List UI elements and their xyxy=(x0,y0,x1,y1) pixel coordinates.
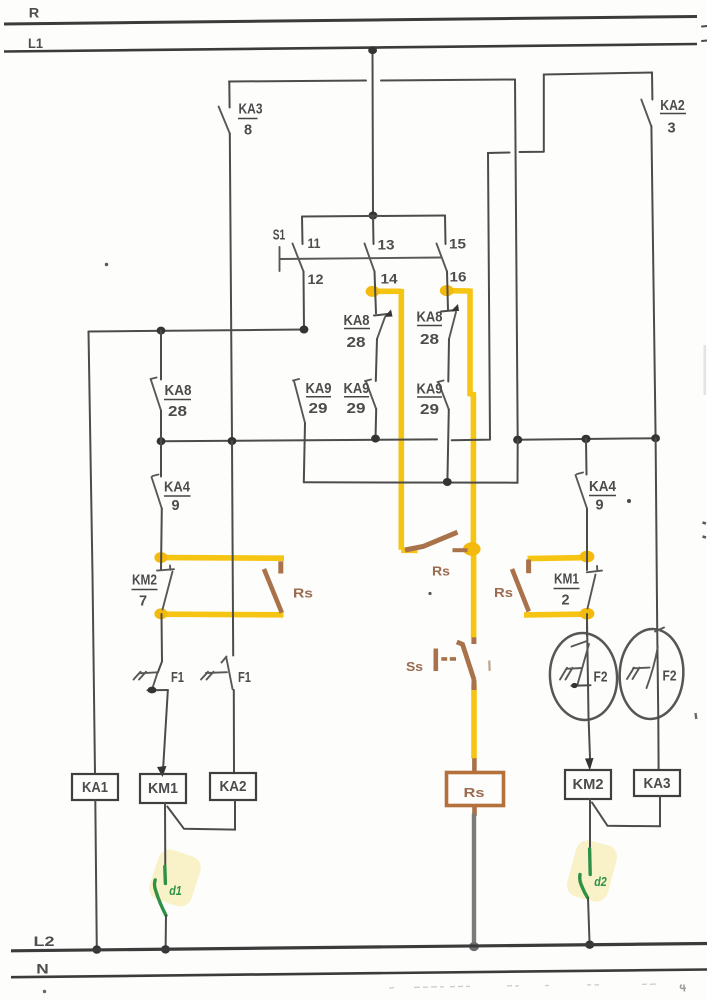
contact S1 pole 13-14 xyxy=(372,216,375,245)
wire KA2 coil branch xyxy=(232,441,233,656)
svg-text:29: 29 xyxy=(309,401,328,417)
wire F1 to KM1 coil xyxy=(163,691,168,767)
svg-text:Rs: Rs xyxy=(432,564,450,579)
faint caption specks bottom xyxy=(389,984,656,988)
yellow jumper at KM2/7 bottom xyxy=(162,611,284,617)
wire KA2 coil elbow to KM1 wire xyxy=(167,800,235,830)
speck near S1 xyxy=(105,263,108,266)
svg-text:Rs: Rs xyxy=(293,586,313,601)
wire F2 to KA3 coil xyxy=(657,719,659,770)
switch S1 actuator xyxy=(280,247,442,271)
yellow jumper at KM2/7 top xyxy=(162,555,284,561)
brown switch Rs mid (open) xyxy=(405,532,458,550)
wire KA3 feeder down to rail xyxy=(515,80,518,440)
green open blade d1 xyxy=(154,880,166,916)
relay contact KA9/29 right xyxy=(438,381,449,410)
relay contact KA4/9 right xyxy=(576,473,588,509)
svg-text:KM1: KM1 xyxy=(148,781,178,797)
wire KA3 top stub xyxy=(228,82,230,108)
bus L2 xyxy=(11,944,707,951)
bus R xyxy=(4,17,697,25)
svg-text:9: 9 xyxy=(595,498,603,514)
node left feeder column A xyxy=(300,326,309,334)
contact S1 pole 11-12 xyxy=(301,217,304,245)
wire rail1 to KA4 right xyxy=(585,439,588,475)
svg-text:2: 2 xyxy=(561,593,569,609)
svg-text:KA9: KA9 xyxy=(306,381,332,397)
wire KA3 coil elbow to KM2 wire xyxy=(592,796,660,826)
relay coil KA3 xyxy=(634,770,680,796)
wire KA2 down to rail xyxy=(651,126,655,438)
thermal contact F1 left xyxy=(134,672,159,680)
wire KA8 to KA9 mid xyxy=(376,339,377,381)
wire KA2 step jog xyxy=(452,75,544,441)
svg-text:Ss: Ss xyxy=(406,659,423,674)
svg-text:KA3: KA3 xyxy=(239,102,263,118)
svg-text:29: 29 xyxy=(347,401,366,417)
svg-text:F1: F1 xyxy=(238,670,251,686)
relay coil KA1 xyxy=(72,774,118,800)
svg-text:KA9: KA9 xyxy=(344,381,370,397)
svg-text:28: 28 xyxy=(420,332,439,348)
yellow wire from contact 16 xyxy=(441,289,474,638)
svg-text:8: 8 xyxy=(244,123,252,139)
svg-text:F2: F2 xyxy=(663,669,677,685)
overload F2 first circle xyxy=(547,631,620,722)
relay contact KA4/9 left xyxy=(152,475,162,509)
relay contact KA9/29 mid xyxy=(365,380,376,410)
wire KA9 mid down to rail1 xyxy=(375,409,378,439)
svg-text:KA8: KA8 xyxy=(165,383,192,399)
contact S1 pole 15-16 xyxy=(444,216,447,245)
svg-text:KM1: KM1 xyxy=(554,572,579,588)
yellow node at contact 16 xyxy=(440,285,454,296)
wire 16 down to KA8 xyxy=(447,272,448,311)
svg-text:F2: F2 xyxy=(594,670,608,686)
relay contact KA8/28 right xyxy=(441,310,457,312)
svg-text:N: N xyxy=(36,961,49,977)
node KM1 on L2 xyxy=(161,945,170,953)
wire F1 to KA2 coil xyxy=(233,690,235,773)
svg-text:3: 3 xyxy=(667,121,675,137)
bus N xyxy=(11,970,707,978)
speck right of KA4/9 xyxy=(627,499,631,503)
wire 12 down to node xyxy=(303,272,306,330)
node rail1 column B xyxy=(371,435,380,443)
relay contact KA8/28 mid xyxy=(374,314,390,316)
wire KM2 contact to F1 xyxy=(158,614,162,672)
svg-text:12: 12 xyxy=(308,271,324,287)
svg-text:KM2: KM2 xyxy=(573,777,604,793)
wire KM2 to d2 xyxy=(589,799,591,850)
brown switch Rs right (open) xyxy=(526,560,531,574)
wire d1 to bus L2 xyxy=(165,916,167,950)
svg-text:KA2: KA2 xyxy=(220,779,247,795)
node rail2 column C xyxy=(443,478,452,486)
svg-text:14: 14 xyxy=(381,271,398,287)
svg-text:KA8: KA8 xyxy=(344,313,370,329)
wire KA8 left branch upper xyxy=(160,331,162,380)
relay contact KA2/3 xyxy=(641,100,651,127)
highlight blob d1 xyxy=(146,846,204,909)
node on L1 xyxy=(368,46,377,54)
thermal contact F1 right xyxy=(201,672,227,680)
relay contact KA9/29 left xyxy=(293,379,305,423)
green overdraw d1 top xyxy=(163,867,167,884)
wire d2 to bus L2 xyxy=(588,898,590,945)
svg-text:KM2: KM2 xyxy=(132,573,157,589)
yellow node KM2/7 bottom xyxy=(154,608,167,619)
bus L1 xyxy=(4,44,697,52)
node rail1 KA2 branch xyxy=(651,434,660,442)
relay contact KA3/8 xyxy=(219,107,230,134)
wire KA1 branch xyxy=(89,332,96,775)
wire F2 to KM2 coil xyxy=(589,716,591,758)
rail1 left segment xyxy=(161,439,437,441)
rail2 lower xyxy=(304,440,518,483)
wire L1 to S1 block xyxy=(372,51,375,216)
edge mark right lower xyxy=(694,713,697,719)
yellow node KM2/7 top xyxy=(154,552,167,563)
svg-text:28: 28 xyxy=(168,404,187,420)
node left feeder KA8 branch xyxy=(157,327,166,335)
edge streak right xyxy=(704,345,707,395)
ink blob at KM1 coil top xyxy=(157,766,167,777)
yellow jumper at KM1/2 top xyxy=(528,555,582,561)
svg-text:L2: L2 xyxy=(34,933,55,949)
wire KA2 feeder xyxy=(544,73,653,100)
squiggle mark bottom right xyxy=(680,985,686,992)
yellow jumper at KM1/2 bottom xyxy=(524,611,581,617)
svg-text:9: 9 xyxy=(171,498,179,514)
node rail1 KA8 branch xyxy=(157,437,166,445)
highlight blob d2 xyxy=(564,838,620,905)
green open blade d2 xyxy=(580,875,588,898)
rail1 right segment xyxy=(518,438,656,440)
node rail1 KA3 branch xyxy=(228,437,237,445)
wire KA4 left to KM2 contact xyxy=(160,509,163,571)
wire KA9 left down to rail2 corner xyxy=(304,423,305,482)
edge mark right middle xyxy=(703,523,707,538)
speck bottom left xyxy=(43,990,46,993)
svg-text:11: 11 xyxy=(308,235,321,251)
svg-text:13: 13 xyxy=(378,237,395,253)
yellow node KM1/2 bottom xyxy=(580,608,595,620)
ink blob at KM2 coil top xyxy=(585,758,594,771)
wire KA1 to bus L2 xyxy=(95,800,97,950)
wire left feeder horizontal xyxy=(89,330,305,332)
contactor coil KM1 xyxy=(140,774,186,803)
overload F2 second circle xyxy=(617,627,685,720)
node rail1 KM2 branch xyxy=(581,435,590,443)
fixed contact tick right of Ss xyxy=(488,661,491,671)
yellow wire from contact 14 xyxy=(368,289,418,550)
green overdraw d2 top xyxy=(588,849,592,875)
wire KA8 to KA9 right xyxy=(447,339,450,382)
wire KA9 right down to rail2 xyxy=(447,410,448,483)
pushbutton Ss xyxy=(433,649,438,672)
node KM2 on L2 xyxy=(585,941,594,949)
contact KM1/2 xyxy=(587,571,602,573)
speck near Rs mid xyxy=(428,592,431,595)
node KA1 on L2 xyxy=(92,945,101,953)
svg-text:Rs: Rs xyxy=(464,785,485,800)
svg-text:16: 16 xyxy=(450,269,467,285)
svg-text:KA8: KA8 xyxy=(417,310,443,326)
svg-text:L1: L1 xyxy=(28,35,43,51)
yellow node KM1/2 top xyxy=(580,551,595,563)
svg-text:d2: d2 xyxy=(594,874,607,889)
contactor coil KM2 xyxy=(565,770,611,799)
svg-text:Rs: Rs xyxy=(494,585,513,600)
svg-text:KA1: KA1 xyxy=(82,780,108,796)
svg-text:KA2: KA2 xyxy=(660,98,685,114)
svg-text:KA9: KA9 xyxy=(417,382,443,398)
wire S1 block top bar xyxy=(302,216,445,217)
yellow node mid Rs switch xyxy=(463,542,481,556)
svg-text:29: 29 xyxy=(420,402,439,418)
svg-text:F1: F1 xyxy=(171,670,184,686)
grey node on L2 xyxy=(469,942,479,951)
resistor box Rs xyxy=(447,773,504,806)
yellow wire Ss to Rs box xyxy=(471,685,477,759)
svg-text:7: 7 xyxy=(139,594,147,610)
wire KA3 feeder xyxy=(229,80,515,82)
svg-text:S1: S1 xyxy=(273,228,286,244)
edge dash marks top right xyxy=(702,26,707,41)
node S1 block top xyxy=(369,212,378,220)
svg-text:28: 28 xyxy=(347,335,366,351)
svg-text:KA4: KA4 xyxy=(164,480,190,496)
relay coil KA2 xyxy=(210,773,256,800)
svg-text:KA4: KA4 xyxy=(589,479,616,495)
wire KA3 down to rail xyxy=(230,134,232,442)
svg-text:15: 15 xyxy=(449,236,466,252)
wire KM1 to d1 xyxy=(164,803,166,868)
contact KM2/7 xyxy=(157,569,174,570)
yellow node at contact 14 xyxy=(366,286,380,297)
relay contact KA8/28 left xyxy=(151,378,162,411)
wire KA8 left to rail1 xyxy=(160,411,162,442)
svg-text:d1: d1 xyxy=(169,883,182,898)
node rail1 KA3 feeder xyxy=(513,436,522,444)
wire rail1 to KA4 left xyxy=(160,441,162,476)
brown switch Rs left (open) xyxy=(278,561,283,573)
svg-text:R: R xyxy=(29,5,40,21)
wire KM1 contact to F2 xyxy=(586,614,588,636)
brown stubs at Rs box xyxy=(472,758,477,816)
svg-text:KA3: KA3 xyxy=(644,776,671,792)
wire KA4 right to KM1 contact xyxy=(586,509,588,571)
wire 14 down to KA8 xyxy=(375,272,377,314)
grey wire Rs box to L2 xyxy=(472,814,476,947)
